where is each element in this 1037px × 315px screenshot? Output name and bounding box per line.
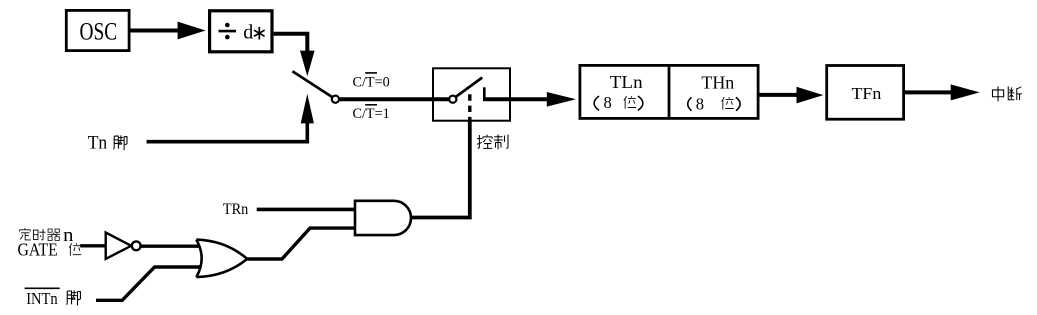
or-gate U4 body	[196, 240, 247, 278]
svg-text:8: 8	[696, 94, 704, 113]
svg-text:d: d	[243, 22, 253, 44]
box control gate	[433, 68, 510, 120]
svg-text:THn: THn	[701, 72, 734, 92]
switch SW1 blade	[292, 71, 332, 97]
divider TLn/THn	[668, 64, 671, 119]
label (8 wei) right close paren	[736, 97, 740, 111]
wire GATE to inverter	[80, 244, 106, 247]
wire Tn pin to switch	[147, 122, 308, 142]
box divider /d	[210, 11, 272, 52]
inverter U3 bubble	[132, 241, 141, 250]
svg-text:GATE: GATE	[18, 239, 58, 259]
wire THn to TFn	[760, 93, 799, 97]
overline INTn	[25, 287, 60, 289]
wire divider to switch corner	[274, 34, 308, 52]
svg-text:OSC: OSC	[80, 18, 118, 45]
divide symbol	[219, 30, 237, 33]
svg-text:Tn: Tn	[88, 134, 108, 154]
label (8 wei) right paren	[688, 97, 692, 111]
svg-text:TLn: TLn	[610, 72, 643, 92]
wire INTn pin to OR input	[96, 267, 203, 300]
box TLn THn register	[580, 65, 758, 118]
switch SW1 pole circle	[332, 96, 339, 103]
wire inverter to OR input	[141, 244, 202, 247]
or-gate U4 outline	[196, 240, 247, 278]
arrowhead down to switch contact C/T=0	[300, 51, 315, 77]
svg-text:n: n	[63, 225, 74, 246]
wire control box to TLn	[483, 97, 549, 101]
label dingshiqi n (timer n)	[20, 228, 31, 240]
asterisk	[254, 27, 265, 40]
svg-text:C/T=0: C/T=0	[353, 74, 390, 90]
arrowhead into divider box	[178, 22, 206, 40]
wire OR output to AND input	[247, 228, 356, 259]
arrowhead into TFn	[797, 87, 824, 104]
inverter U3 triangle	[106, 233, 132, 259]
label wei (bit) right	[721, 97, 733, 110]
wire switch pole to control box	[339, 97, 433, 101]
wire AND output up to control	[411, 121, 470, 217]
svg-text:8: 8	[604, 93, 612, 112]
arrowhead up to switch contact C/T=1	[301, 94, 314, 124]
label (8 wei) left close paren	[638, 96, 643, 110]
arrowhead into TLn	[547, 92, 576, 107]
box TFn flag	[827, 66, 904, 120]
svg-text:C/T=1: C/T=1	[353, 106, 390, 122]
svg-text:TFn: TFn	[852, 84, 882, 103]
label jiao (pin) for INTn	[66, 290, 80, 305]
label jiao (pin)	[113, 135, 127, 150]
box OSC U1	[66, 10, 129, 50]
svg-text:TRn: TRn	[223, 201, 248, 218]
label wei (bit) left	[624, 96, 636, 109]
wire into control switch	[432, 97, 450, 101]
control switch blade	[456, 78, 483, 97]
label kongzhi (control)	[477, 135, 492, 149]
svg-text:INTn: INTn	[26, 289, 58, 308]
label zhongduan (interrupt)	[992, 87, 1003, 102]
overline over T of C/T=1	[365, 104, 377, 106]
wire TRn to AND	[257, 208, 356, 212]
dashed control linkage	[468, 94, 471, 121]
wire TFn to interrupt	[905, 90, 953, 94]
overline over T of C/T=0	[365, 72, 377, 74]
control switch pole circle	[449, 96, 456, 103]
wire OSC to divider	[130, 29, 179, 33]
and-gate U2	[355, 201, 411, 235]
arrowhead to interrupt	[951, 84, 980, 100]
control switch contact stub	[483, 87, 486, 98]
label (8 wei) left paren	[594, 96, 599, 110]
